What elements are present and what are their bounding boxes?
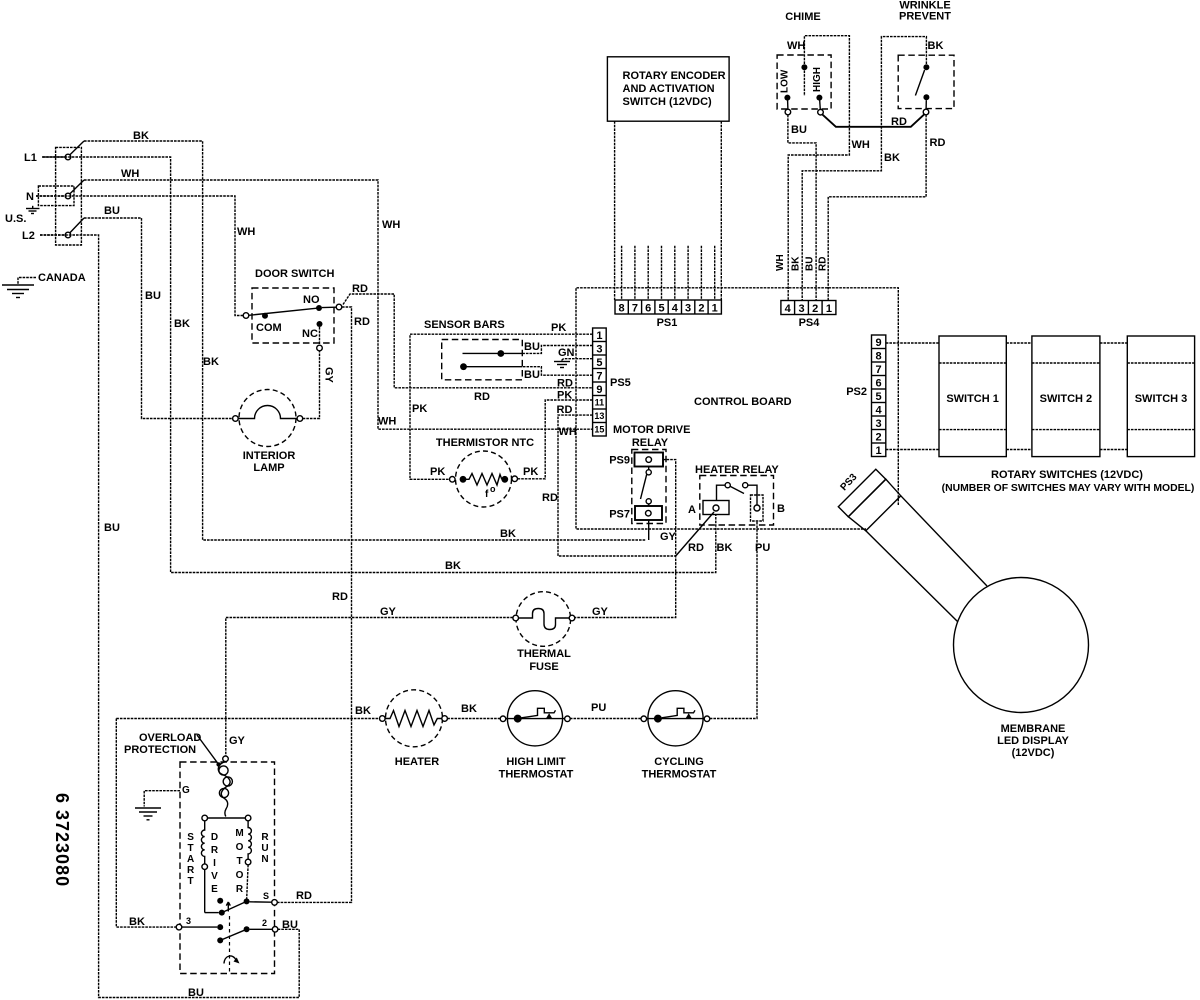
ground CANADA bbox=[2, 272, 86, 298]
svg-text:RD: RD bbox=[542, 492, 558, 504]
svg-text:G: G bbox=[182, 785, 190, 796]
svg-text:CHIME: CHIME bbox=[785, 11, 820, 23]
relay contact PS9 bbox=[635, 453, 664, 467]
svg-text:RD: RD bbox=[818, 257, 829, 271]
wire BK from L1 through to heater relay A bbox=[43, 157, 716, 573]
centrifugal switch 2 bbox=[217, 918, 298, 943]
svg-text:SWITCH 2: SWITCH 2 bbox=[1040, 393, 1093, 405]
wire PK PS5 pin 1 to thermistor bbox=[410, 334, 593, 479]
svg-text:(12VDC): (12VDC) bbox=[1012, 747, 1055, 759]
motor drive relay bbox=[573, 424, 691, 618]
svg-text:PS4: PS4 bbox=[799, 317, 821, 329]
wire GY from door switch NC to interior lamp bbox=[303, 351, 320, 419]
svg-text:11: 11 bbox=[595, 398, 605, 408]
svg-text:1: 1 bbox=[596, 330, 602, 342]
svg-text:HIGH LIMIT: HIGH LIMIT bbox=[506, 756, 566, 768]
svg-text:WH: WH bbox=[237, 226, 255, 238]
wire GN PS5 pin 5 to ground bbox=[564, 358, 593, 360]
svg-text:4: 4 bbox=[785, 303, 792, 315]
wire PS7 pin down to BK bbox=[648, 520, 650, 540]
svg-text:NO: NO bbox=[303, 294, 320, 306]
svg-text:GY: GY bbox=[592, 606, 609, 618]
svg-text:GY: GY bbox=[323, 367, 335, 384]
svg-text:9: 9 bbox=[596, 384, 602, 396]
ground U.S. bbox=[5, 206, 40, 225]
start winding bbox=[201, 821, 204, 864]
membrane LED display bbox=[954, 578, 1089, 760]
svg-text:9: 9 bbox=[876, 337, 882, 349]
wire BU from L2 to interior lamp bbox=[84, 218, 233, 419]
connector PS1 bbox=[615, 300, 721, 329]
svg-text:1: 1 bbox=[826, 303, 832, 315]
membrane LED display tube bbox=[901, 496, 987, 586]
svg-text:3: 3 bbox=[685, 303, 691, 315]
svg-text:BK: BK bbox=[133, 130, 149, 142]
wire BK left side to motor terminal 3 bbox=[116, 719, 176, 928]
svg-text:LOW: LOW bbox=[780, 69, 791, 93]
connector PS3 plug bbox=[838, 469, 901, 531]
thermal fuse bbox=[513, 592, 575, 673]
svg-text:BK: BK bbox=[928, 40, 944, 52]
svg-text:GY: GY bbox=[380, 606, 397, 618]
svg-text:PS7: PS7 bbox=[609, 509, 630, 521]
svg-text:BK: BK bbox=[355, 705, 371, 717]
svg-text:PS2: PS2 bbox=[846, 386, 867, 398]
svg-text:WH: WH bbox=[382, 219, 400, 231]
svg-text:RD: RD bbox=[891, 116, 907, 128]
wrinkle prevent switch box bbox=[898, 55, 954, 108]
svg-text:WH: WH bbox=[852, 139, 870, 151]
svg-text:5: 5 bbox=[596, 357, 602, 369]
sensor bar lower plate bbox=[463, 366, 523, 368]
connector PS5 bbox=[593, 328, 631, 436]
svg-text:WH: WH bbox=[787, 40, 805, 52]
svg-text:13: 13 bbox=[594, 411, 604, 421]
svg-text:BU: BU bbox=[188, 987, 204, 999]
door switch lever bbox=[249, 308, 317, 315]
rotary switch 1 bbox=[939, 336, 1006, 457]
svg-text:L1: L1 bbox=[24, 152, 37, 164]
svg-text:7: 7 bbox=[632, 303, 638, 315]
wire RD chime HIGH to wrinkle prevent bbox=[822, 114, 924, 127]
svg-text:SENSOR BARS: SENSOR BARS bbox=[424, 319, 505, 331]
svg-text:PROTECTION: PROTECTION bbox=[124, 744, 196, 756]
sensor bars bbox=[424, 319, 522, 380]
svg-text:15: 15 bbox=[594, 425, 604, 435]
svg-text:5: 5 bbox=[658, 303, 664, 315]
svg-text:2: 2 bbox=[262, 918, 267, 928]
svg-text:CONTROL BOARD: CONTROL BOARD bbox=[694, 396, 792, 408]
svg-text:RD: RD bbox=[930, 137, 946, 149]
high limit thermostat bbox=[499, 691, 574, 781]
svg-text:GN: GN bbox=[558, 347, 575, 359]
wire BU from L2 to motor terminal 2 bbox=[40, 235, 299, 998]
svg-text:PU: PU bbox=[591, 702, 606, 714]
rotary encoder and activation switch box bbox=[607, 57, 729, 121]
rotary switch 3 bbox=[1127, 336, 1194, 457]
wire RD wrinkle prevent to PS4 pin 1 bbox=[828, 115, 926, 301]
power terminal block outer box bbox=[56, 147, 82, 245]
svg-text:RD: RD bbox=[296, 890, 312, 902]
svg-text:THERMOSTAT: THERMOSTAT bbox=[499, 769, 574, 781]
svg-text:RD: RD bbox=[688, 542, 704, 554]
svg-text:NC: NC bbox=[302, 328, 318, 340]
wire PS2 pin 9 to rotary switches bbox=[886, 342, 1128, 344]
svg-text:BU: BU bbox=[104, 522, 120, 534]
svg-text:6 3723080: 6 3723080 bbox=[52, 793, 72, 887]
svg-text:5: 5 bbox=[876, 391, 882, 403]
svg-text:2: 2 bbox=[876, 432, 882, 444]
svg-text:o: o bbox=[490, 484, 496, 494]
terminal L1 bbox=[24, 141, 84, 164]
wire BU PS5 pin 7 to lower sensor bar bbox=[522, 367, 592, 376]
svg-text:RD: RD bbox=[474, 391, 490, 403]
svg-text:BK: BK bbox=[461, 703, 477, 715]
svg-text:ROTARY SWITCHES (12VDC): ROTARY SWITCHES (12VDC) bbox=[991, 469, 1143, 481]
svg-text:PK: PK bbox=[557, 390, 572, 402]
svg-text:SWITCH (12VDC): SWITCH (12VDC) bbox=[623, 96, 713, 108]
encoder ribbon cable to PS1 bbox=[615, 121, 722, 300]
relay contact PS7 bbox=[635, 506, 662, 520]
svg-text:ROTARY ENCODER: ROTARY ENCODER bbox=[623, 70, 726, 82]
svg-text:BK: BK bbox=[174, 318, 190, 330]
svg-text:3: 3 bbox=[876, 418, 882, 430]
svg-text:COM: COM bbox=[256, 322, 282, 334]
svg-text:BU: BU bbox=[805, 257, 816, 271]
wire PK PS5 pin 11 to thermistor bbox=[517, 400, 592, 479]
wire BK from L1 to motor drive relay PS7 bbox=[84, 141, 646, 540]
svg-text:B: B bbox=[777, 503, 785, 515]
svg-text:RD: RD bbox=[332, 591, 348, 603]
svg-text:7: 7 bbox=[876, 364, 882, 376]
svg-text:BU: BU bbox=[791, 124, 807, 136]
svg-text:1: 1 bbox=[876, 445, 882, 457]
svg-text:4: 4 bbox=[876, 405, 883, 417]
terminal N bbox=[26, 180, 84, 203]
svg-text:BU: BU bbox=[524, 369, 540, 381]
connector PS2 bbox=[846, 335, 886, 457]
svg-text:BU: BU bbox=[524, 341, 540, 353]
svg-text:BK: BK bbox=[500, 528, 516, 540]
wire PU cycling thermostat to heater relay B bbox=[710, 521, 757, 719]
svg-text:SWITCH 1: SWITCH 1 bbox=[946, 393, 999, 405]
svg-text:MEMBRANE: MEMBRANE bbox=[1001, 723, 1066, 735]
svg-text:8: 8 bbox=[619, 303, 625, 315]
svg-text:WH: WH bbox=[559, 426, 577, 438]
svg-text:INTERIOR: INTERIOR bbox=[243, 450, 296, 462]
run winding bbox=[248, 821, 251, 859]
wire BU PS5 pin 3 to upper sensor bar bbox=[522, 346, 592, 354]
svg-text:2: 2 bbox=[698, 303, 704, 315]
connector PS4 bbox=[781, 301, 836, 330]
svg-text:THERMOSTAT: THERMOSTAT bbox=[642, 769, 717, 781]
power terminal block N box bbox=[38, 186, 74, 206]
wire N to door switch COM bbox=[36, 196, 243, 316]
heater bbox=[380, 690, 448, 768]
svg-text:LAMP: LAMP bbox=[253, 462, 284, 474]
svg-text:PS9: PS9 bbox=[609, 455, 630, 467]
wire GY thermal fuse to overload bbox=[226, 618, 513, 757]
control board outline bbox=[576, 288, 898, 529]
svg-text:N: N bbox=[26, 191, 34, 203]
svg-text:PS5: PS5 bbox=[610, 377, 631, 389]
overload protector coil bbox=[218, 756, 232, 817]
svg-text:OVERLOAD: OVERLOAD bbox=[139, 732, 201, 744]
svg-text:(NUMBER OF SWITCHES MAY VARY W: (NUMBER OF SWITCHES MAY VARY WITH MODEL) bbox=[942, 483, 1195, 494]
wire RD from door switch NO to PS5 pin 9 bbox=[343, 294, 593, 388]
wire BU chime LOW to PS4 pin 2 bbox=[788, 115, 816, 301]
wire PS2 pin 1 to rotary switches bbox=[886, 449, 1128, 451]
svg-text:7: 7 bbox=[596, 371, 602, 383]
thermistor NTC bbox=[430, 437, 538, 507]
svg-text:RD: RD bbox=[557, 404, 573, 416]
svg-text:PU: PU bbox=[755, 542, 770, 554]
heater relay lever bbox=[730, 486, 744, 493]
svg-text:DOOR SWITCH: DOOR SWITCH bbox=[255, 268, 334, 280]
svg-text:RD: RD bbox=[352, 283, 368, 295]
rotary switch 2 bbox=[1032, 336, 1100, 457]
heater relay coil B bbox=[751, 495, 764, 521]
svg-text:S: S bbox=[263, 891, 269, 901]
wire WH chime common to PS4 pin 4 bbox=[788, 36, 849, 301]
svg-text:PK: PK bbox=[430, 466, 445, 478]
svg-text:3: 3 bbox=[596, 344, 602, 356]
svg-text:4: 4 bbox=[672, 303, 679, 315]
svg-text:PK: PK bbox=[523, 466, 538, 478]
wire RD PS5 pin 13 to junction and heater relay A bbox=[558, 415, 676, 556]
wire WH from N to PS5 pin 15 bbox=[84, 180, 593, 429]
svg-text:BU: BU bbox=[145, 290, 161, 302]
svg-text:WH: WH bbox=[775, 254, 786, 271]
cycling thermostat bbox=[641, 691, 717, 781]
centrifugal actuator arc bbox=[224, 956, 236, 964]
ground G motor bbox=[135, 785, 190, 820]
svg-text:1: 1 bbox=[712, 303, 718, 315]
svg-text:WH: WH bbox=[378, 416, 396, 428]
chime HIGH contact bbox=[816, 95, 822, 101]
svg-text:6: 6 bbox=[876, 378, 882, 390]
svg-text:BK: BK bbox=[129, 916, 145, 928]
svg-text:RELAY: RELAY bbox=[632, 437, 669, 449]
svg-text:PS1: PS1 bbox=[657, 317, 678, 329]
overload protection label bbox=[124, 732, 221, 767]
terminal L2 bbox=[22, 218, 84, 242]
heater relay coil A bbox=[703, 501, 729, 515]
motor dashed box bbox=[180, 762, 275, 974]
svg-text:GY: GY bbox=[229, 735, 246, 747]
door switch NO contact bbox=[316, 305, 322, 311]
svg-text:LED DISPLAY: LED DISPLAY bbox=[997, 735, 1069, 747]
centrifugal switch S bbox=[217, 891, 277, 916]
wire PS9 to thermal fuse junction bbox=[573, 460, 676, 618]
svg-text:BK: BK bbox=[791, 256, 802, 271]
svg-text:A: A bbox=[688, 504, 696, 516]
svg-text:THERMAL: THERMAL bbox=[517, 648, 571, 660]
svg-text:WH: WH bbox=[121, 168, 139, 180]
svg-text:CANADA: CANADA bbox=[38, 272, 86, 284]
wire BK main bottom row bbox=[116, 718, 379, 720]
svg-text:HIGH: HIGH bbox=[812, 67, 823, 92]
svg-text:BK: BK bbox=[203, 356, 219, 368]
svg-text:GY: GY bbox=[660, 531, 677, 543]
svg-text:FUSE: FUSE bbox=[529, 661, 558, 673]
sensor bar upper plate bbox=[463, 352, 523, 354]
svg-text:3: 3 bbox=[798, 303, 804, 315]
svg-text:AND ACTIVATION: AND ACTIVATION bbox=[623, 83, 715, 95]
svg-text:BK: BK bbox=[445, 560, 461, 572]
wrinkle prevent switch bbox=[923, 64, 929, 70]
svg-text:6: 6 bbox=[645, 303, 651, 315]
interior lamp bbox=[233, 390, 303, 475]
chime LOW contact bbox=[784, 95, 790, 101]
svg-text:RD: RD bbox=[354, 316, 370, 328]
svg-text:HEATER: HEATER bbox=[395, 756, 439, 768]
svg-text:PK: PK bbox=[412, 403, 427, 415]
svg-text:8: 8 bbox=[876, 351, 882, 363]
door switch COM terminal bbox=[243, 313, 249, 319]
svg-text:BU: BU bbox=[104, 205, 120, 217]
svg-text:2: 2 bbox=[812, 303, 818, 315]
svg-text:BK: BK bbox=[884, 152, 900, 164]
ground GN bbox=[554, 359, 570, 368]
svg-text:HEATER RELAY: HEATER RELAY bbox=[695, 464, 779, 476]
motor terminal 3 bbox=[176, 924, 182, 930]
svg-text:BK: BK bbox=[717, 542, 733, 554]
svg-text:PREVENT: PREVENT bbox=[899, 11, 951, 23]
door switch NC contact bbox=[317, 321, 323, 327]
wire BK wrinkle prevent to PS4 pin 3 bbox=[802, 37, 926, 301]
svg-text:THERMISTOR NTC: THERMISTOR NTC bbox=[436, 437, 534, 449]
svg-text:3: 3 bbox=[186, 916, 191, 926]
svg-text:CYCLING: CYCLING bbox=[654, 756, 704, 768]
svg-text:L2: L2 bbox=[22, 230, 35, 242]
svg-text:BU: BU bbox=[282, 919, 298, 931]
svg-text:SWITCH 3: SWITCH 3 bbox=[1135, 393, 1188, 405]
svg-text:PK: PK bbox=[551, 322, 566, 334]
wire RD from door switch NO to motor terminal S bbox=[277, 307, 351, 902]
svg-text:MOTOR DRIVE: MOTOR DRIVE bbox=[613, 424, 690, 436]
svg-text:U.S.: U.S. bbox=[5, 213, 26, 225]
svg-text:RUN: RUN bbox=[261, 832, 269, 865]
door switch bbox=[243, 268, 342, 351]
motor winding top bar bbox=[205, 817, 248, 819]
heater relay bbox=[688, 464, 785, 525]
chime switch box bbox=[777, 55, 831, 109]
relay lever bbox=[641, 474, 647, 499]
chime common contact bbox=[801, 64, 807, 70]
centrifugal mechanism link bbox=[229, 916, 231, 972]
svg-text:RD: RD bbox=[557, 378, 573, 390]
